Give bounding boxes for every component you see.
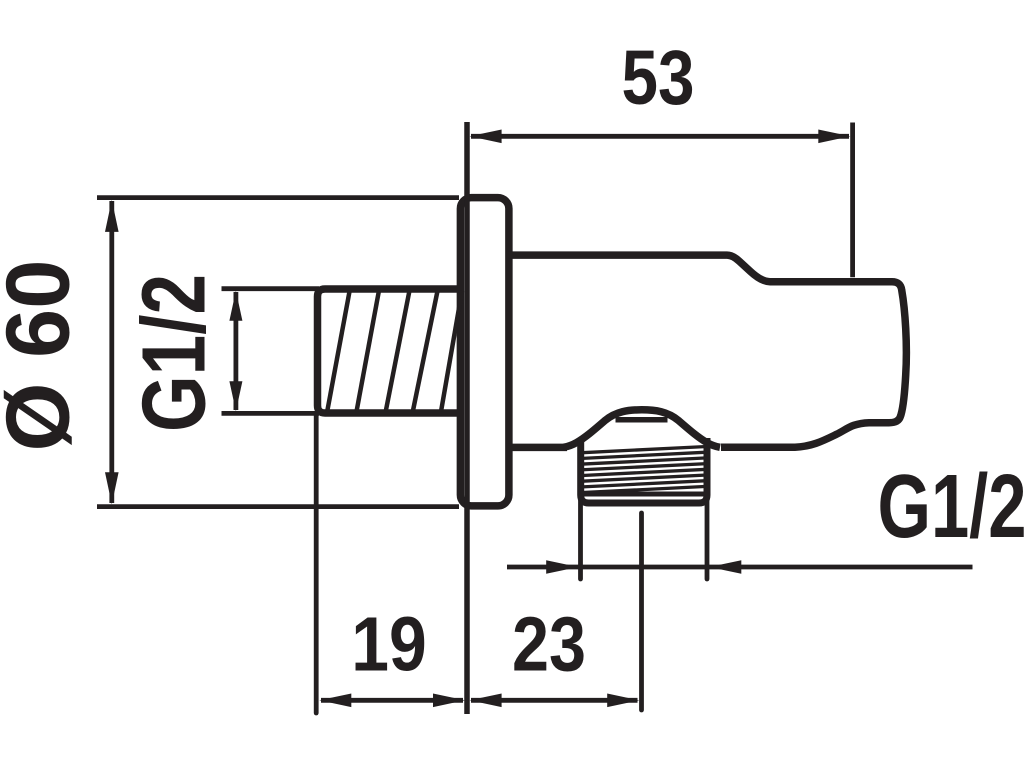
arrowhead G1/2 right dim, left arrow pointing right bbox=[546, 560, 578, 574]
arrowhead G1/2 left top bbox=[229, 291, 242, 321]
outlet thread inner bottom line bbox=[579, 492, 709, 497]
arrowhead 23 left bbox=[470, 694, 502, 708]
threaded inlet pipe G1/2 (left), outline bbox=[318, 289, 461, 413]
extension line outlet thread right bbox=[705, 500, 710, 579]
body top outline with step and right end bbox=[508, 255, 906, 447]
svg-text:53: 53 bbox=[622, 35, 695, 121]
arrowhead G1/2 right dim, right arrow pointing left bbox=[709, 560, 741, 574]
arrowhead 53 right bbox=[818, 130, 850, 144]
extension line bottom of dia 60 bbox=[97, 504, 459, 509]
dimension line 53 bbox=[471, 134, 849, 139]
extension line right end of 53 bbox=[850, 123, 855, 278]
thread hatch lines (left pipe) bbox=[327, 291, 462, 411]
dimension line 19 bbox=[321, 698, 463, 703]
svg-text:19: 19 bbox=[351, 602, 427, 688]
extension line top of dia 60 bbox=[97, 195, 459, 200]
dimension line 23 bbox=[471, 698, 638, 703]
arrowhead dia60 top bbox=[105, 200, 119, 232]
dimension line dia 60 bbox=[109, 201, 114, 503]
arrowhead 19 right bbox=[433, 694, 465, 708]
body bottom outline left of outlet dome bbox=[508, 444, 567, 452]
outlet thread sides and rounded bottom cap bbox=[581, 438, 707, 503]
extension line thread start (19 left) bbox=[314, 415, 319, 713]
arrowhead G1/2 left bottom bbox=[229, 381, 242, 411]
extension line outlet thread left bbox=[578, 500, 583, 579]
arrowhead dia60 bottom bbox=[105, 472, 119, 504]
dimension line G1/2 right bbox=[507, 565, 973, 570]
outlet dome (hump over outlet thread) bbox=[564, 410, 721, 448]
arrowhead 53 left bbox=[470, 130, 502, 144]
svg-text:23: 23 bbox=[512, 602, 586, 688]
arrowhead 23 right bbox=[607, 694, 639, 708]
extension line top of G1/2 left bbox=[222, 286, 320, 291]
outlet center line bbox=[639, 513, 644, 710]
svg-text:Ø 60: Ø 60 bbox=[0, 260, 89, 452]
wall face extension line bbox=[464, 122, 470, 714]
svg-text:G1/2: G1/2 bbox=[878, 457, 1024, 557]
extension line bottom of G1/2 left bbox=[222, 411, 320, 416]
svg-text:G1/2: G1/2 bbox=[124, 274, 224, 432]
outlet thread chamfered top cap bbox=[616, 417, 668, 423]
dimension line G1/2 left bbox=[233, 292, 238, 410]
arrowhead 19 left bbox=[319, 694, 351, 708]
wall flange (round escutcheon, side view) bbox=[460, 198, 509, 506]
outlet thread hatch lines bbox=[580, 447, 707, 493]
